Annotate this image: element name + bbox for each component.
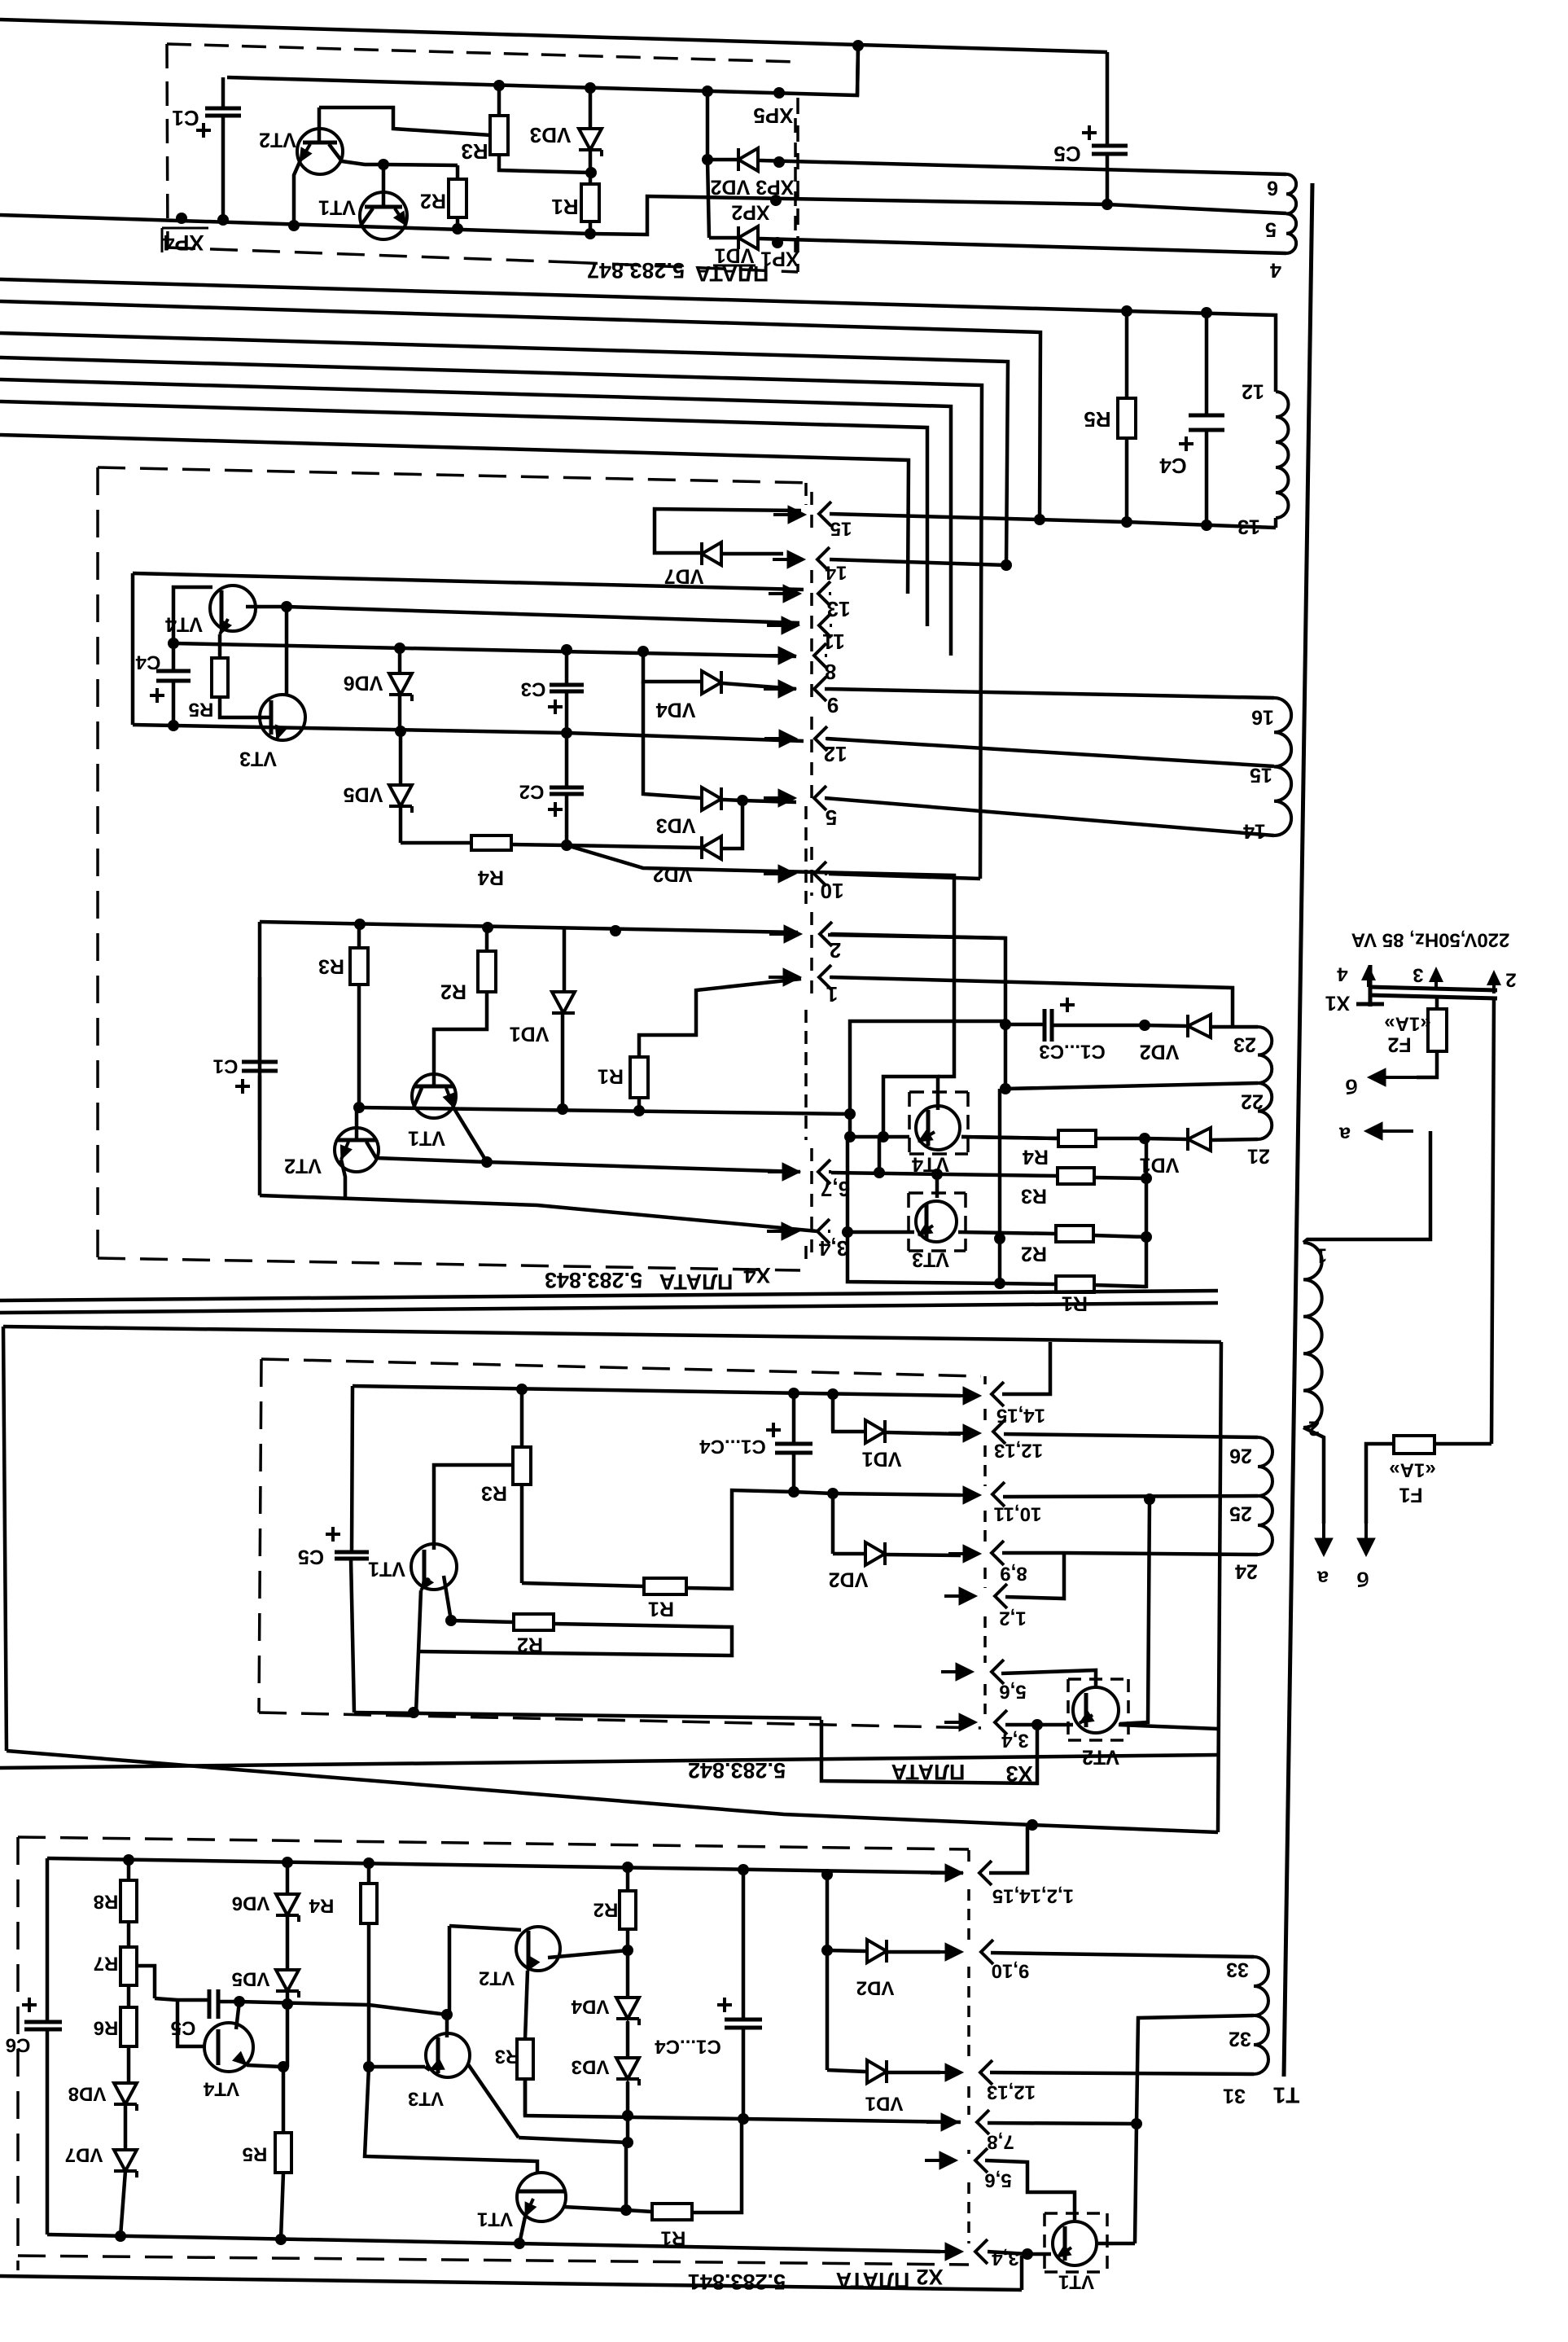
svg-text:VD3: VD3: [656, 814, 696, 836]
winding label 16: [1251, 705, 1274, 728]
board 847 dashed right: [796, 98, 799, 272]
junction dot on net-A: [852, 40, 864, 51]
primary label 2: [1308, 1416, 1320, 1439]
capacitor C1..C4 (841) plus: [717, 1998, 732, 2012]
transistor VT3 (841) base wire: [445, 2015, 449, 2037]
capacitor C1..C4 (842) label: [699, 1436, 766, 1458]
board 841 top rail: [47, 1858, 963, 1873]
board 843 drvbox bottom: [260, 1195, 817, 1231]
wire C5 links: [155, 1998, 239, 2046]
board 841 title: [688, 2265, 944, 2294]
transistor VT2 emitter: [288, 144, 312, 231]
wire pin12-13 to winding 26: [1004, 1434, 1258, 1437]
transistor VT2 (843) label: [284, 1154, 322, 1177]
resistor R3 label: [461, 139, 488, 164]
resistor R3 (843) leads: [357, 922, 361, 1107]
svg-text:X2: X2: [916, 2265, 943, 2289]
svg-text:VD2: VD2: [1140, 1040, 1180, 1063]
wire row 2630: [626, 2116, 630, 2142]
svg-text:б: б: [1345, 1074, 1357, 1097]
transistor VT2 (power842): [1073, 1687, 1119, 1733]
svg-text:4: 4: [1337, 963, 1348, 985]
connector X1 bars: [1369, 987, 1497, 998]
svg-text:32: 32: [1229, 2027, 1251, 2050]
arrow into X3 pin12-13: [948, 1424, 981, 1442]
junction dot C2 bottom: [561, 840, 572, 851]
resistor R2 (power): [1056, 1226, 1093, 1242]
resistor R4 (power) wires: [961, 1137, 1145, 1138]
junction dot R1 left: [994, 1278, 1005, 1289]
resistor R7: [120, 1947, 137, 1985]
diode VD2 (843) label: [653, 862, 693, 885]
wire VD3 node to pin5: [742, 800, 796, 802]
diode VD2 (power): [1188, 1015, 1211, 1037]
wire R5 bottom to VT3 base: [220, 697, 271, 717]
board 847 dashed bottom: [168, 248, 570, 262]
zener VD3 label: [530, 123, 572, 147]
junction dot XP3: [773, 156, 785, 168]
svg-text:R3: R3: [1021, 1184, 1047, 1207]
junction dot R2 bottom: [452, 223, 463, 235]
wire R1 wires: [1000, 1283, 1146, 1287]
transistor VT1 (843) collector: [414, 1088, 422, 1107]
board 843 dashed left: [96, 467, 99, 1258]
wire driver row 1360: [359, 1107, 850, 1114]
svg-text:VD6: VD6: [344, 671, 383, 694]
resistor R1 (842) label: [648, 1597, 674, 1620]
svg-text:5,6: 5,6: [984, 2169, 1011, 2191]
diode VD2 (842) label: [829, 1568, 869, 1590]
resistor R3 (843): [350, 948, 368, 985]
diode VD1 (841) label: [865, 2093, 904, 2115]
resistor R1 (843) label: [598, 1064, 624, 1087]
svg-text:31: 31: [1223, 2084, 1246, 2107]
diode VD2 (power) wires: [1145, 1025, 1258, 1027]
svg-text:9,10: 9,10: [992, 1960, 1030, 1982]
junction dot pin34 row: [842, 1226, 853, 1238]
junction dot C4-843 bottom: [168, 720, 179, 731]
transistor VT2 (power842) row: [1037, 1711, 1094, 1725]
capacitor C2 leads: [565, 733, 569, 845]
capacitor C1..C4 (842): [775, 1444, 812, 1453]
connector X1 pin3 arrow: [1413, 964, 1443, 990]
winding label 31: [1223, 2084, 1246, 2107]
svg-text:26: 26: [1229, 1444, 1252, 1467]
board 847 top rail: [227, 46, 858, 95]
capacitor C6: [24, 2022, 62, 2029]
svg-text:R4: R4: [478, 866, 504, 888]
svg-text:VD5: VD5: [344, 783, 383, 805]
capacitor C1..C4 (841) label: [655, 2036, 721, 2058]
svg-text:R2: R2: [440, 980, 466, 1002]
resistor R3 (841) label: [495, 2046, 520, 2068]
svg-text:R1: R1: [661, 2227, 686, 2249]
connector X3 dashes: [983, 1376, 987, 1714]
junction dot C4 bottom: [1201, 520, 1212, 531]
transformer winding 16-15-14: [1274, 698, 1291, 835]
capacitor C4 (843) leads: [172, 643, 176, 726]
transistor VT1 (843) emitter: [443, 1088, 487, 1162]
capacitor C5 plus: [1082, 125, 1097, 140]
transistor VT4 (843): [210, 585, 256, 631]
wire left loop: [848, 1137, 1000, 1283]
board 847 title: [587, 258, 769, 286]
divider line 1: [0, 1291, 1218, 1300]
svg-text:VT1: VT1: [477, 2208, 513, 2230]
svg-text:VD2: VD2: [653, 862, 693, 885]
wire winding22 tap: [1005, 1083, 1258, 1089]
svg-text:R4: R4: [309, 1895, 334, 1917]
svg-text:14: 14: [825, 562, 847, 584]
diode VD1 (power): [1188, 1128, 1211, 1151]
bus wire L3: [0, 333, 1008, 565]
transistor VT4 (power): [916, 1106, 960, 1150]
zener VD6 leads: [286, 1862, 290, 1970]
connector X4 pin 15: [819, 502, 852, 540]
svg-text:1: 1: [826, 982, 838, 1007]
arrow into X2 pin12-13: [931, 2064, 963, 2081]
winding 13 tail: [1274, 518, 1278, 528]
wire C5 to pin5 row: [1106, 154, 1110, 204]
svg-text:VD4: VD4: [571, 1996, 609, 2018]
svg-text:R1: R1: [648, 1597, 674, 1620]
resistor R1 (power): [1056, 1276, 1094, 1292]
transistor VT1 (power841): [1053, 2221, 1097, 2265]
capacitor C4 (T1 area) leads: [1205, 313, 1209, 525]
zener VD5 (841): [276, 1970, 299, 1998]
capacitor C3 plus: [548, 700, 563, 714]
svg-text:C2: C2: [519, 781, 545, 803]
primary label 1: [1316, 1243, 1327, 1266]
diode VD2 (843): [702, 836, 721, 859]
wire VT2C row: [383, 164, 458, 165]
svg-text:R5: R5: [189, 699, 214, 721]
winding label 12: [1242, 379, 1264, 402]
diode VD1 (842) label: [862, 1447, 902, 1470]
transistor VT2 (847): [297, 129, 343, 174]
resistor R4 (843) label: [478, 866, 504, 888]
winding label 22: [1241, 1090, 1264, 1112]
diode VD1 (841): [867, 2060, 887, 2083]
board 843 title: [545, 1263, 771, 1294]
board 847 bottom rail: [0, 196, 1286, 235]
diode VD1 (power) wires: [1145, 1138, 1258, 1140]
wire R4row riser: [567, 845, 954, 1077]
connector X2 pin 5-6: [925, 2148, 1012, 2191]
junction dot C2 top: [561, 727, 572, 739]
transistor VT3 (841) label: [408, 2088, 444, 2110]
resistor R1 (847) leads: [589, 173, 593, 234]
junction dot 1016 mid: [821, 1945, 833, 1956]
transistor VT4 (841) emitter: [233, 2052, 282, 2068]
svg-text:3: 3: [1413, 964, 1423, 986]
resistor R2 (843) label: [440, 980, 466, 1002]
transistor VT1 (power841) row: [1027, 2245, 1071, 2257]
svg-text:R3: R3: [495, 2046, 520, 2068]
capacitor C1 leads: [221, 77, 226, 220]
zener VD3 (847): [579, 129, 602, 156]
resistor R8 leads: [127, 1860, 131, 1947]
winding label 25: [1229, 1502, 1252, 1524]
bottom outer line: [0, 2256, 1022, 2290]
svg-text:1: 1: [1316, 1243, 1327, 1266]
diode VD1 (847): [738, 226, 758, 249]
winding label 13: [1237, 515, 1260, 537]
diode VD1 (power) label: [1140, 1153, 1180, 1176]
primary top lead: [1303, 1131, 1430, 1243]
diode VD1 (843) leads: [563, 928, 564, 1109]
svg-text:R2: R2: [517, 1633, 543, 1656]
wire X2 pin1 jog: [989, 1827, 1027, 1873]
wire pin10-11 to winding 25 tap: [1003, 1496, 1258, 1497]
svg-text:15: 15: [1250, 763, 1272, 786]
arrow into pin14: [773, 550, 805, 568]
board 847 dashes at pins: [794, 118, 797, 252]
svg-text:F2: F2: [1387, 1033, 1411, 1055]
winding label 32: [1229, 2027, 1251, 2050]
resistor R3 (841) leads: [523, 2039, 528, 2116]
svg-text:12: 12: [824, 742, 848, 766]
fuse F2: [1428, 998, 1447, 1051]
board 842 outer top: [3, 1327, 1221, 1342]
svg-text:24: 24: [1235, 1559, 1258, 1582]
transistor VT1 collector: [361, 208, 373, 226]
transformer winding 33-32-31: [1254, 1957, 1268, 2074]
svg-text:F1: F1: [1399, 1483, 1422, 1506]
transistor VT4 (841) label: [203, 2078, 239, 2100]
junction dot 7-8 right: [1131, 2118, 1142, 2129]
svg-text:13: 13: [1237, 515, 1260, 537]
junction dot VD1 bottom: [557, 1103, 568, 1115]
capacitor C3 leads: [565, 647, 569, 733]
connector X4 pin 1: [769, 965, 838, 1007]
svg-text:VD6: VD6: [232, 1892, 270, 1914]
junction dot tap22: [1000, 1083, 1011, 1094]
wire pin12 row to winding tap 15: [826, 739, 1274, 766]
transistor VT2 (841) collector: [548, 1950, 628, 1958]
resistor R5 (841) leads: [281, 2067, 283, 2239]
capacitor C5 lead: [1106, 52, 1110, 146]
resistor R4 (843) row: [401, 843, 567, 845]
svg-text:R8: R8: [94, 1891, 119, 1913]
transistor VT1 (842): [411, 1544, 457, 1590]
wire pin3-4 drop: [821, 1720, 1037, 1783]
resistor R6: [120, 2007, 137, 2046]
zener VD7 label: [65, 2144, 103, 2166]
board 847 dashed top: [167, 44, 798, 62]
transistor VT4 emitter: [220, 619, 231, 658]
winding label 5: [1265, 217, 1277, 240]
junction dots drv rail: [354, 919, 621, 936]
svg-text:X4: X4: [743, 1263, 770, 1287]
zener VD5 (841) label: [232, 1968, 270, 1990]
junction dot VT2 base node: [441, 2009, 453, 2020]
svg-text:VD2: VD2: [829, 1568, 869, 1590]
junction dot VT4 base loop: [878, 1131, 889, 1142]
board 843 drvbox left: [258, 922, 262, 1195]
board 847 dashed left: [167, 44, 168, 248]
resistor R1 (841): [652, 2204, 692, 2220]
fuse F2 rating: [1384, 1013, 1430, 1035]
wire pin3-4 row: [1005, 1723, 1037, 1727]
junction dot X2 pin34: [1022, 2248, 1033, 2260]
resistor R8: [120, 1880, 137, 1922]
diode VD1 (843) label: [510, 1022, 550, 1045]
svg-text:VT2: VT2: [259, 128, 296, 151]
board 843 subbox bottom to pin12: [133, 725, 804, 741]
connector X2 pin 7-8: [926, 2110, 1014, 2153]
zener VD6 label: [344, 671, 383, 694]
wire X2 pin7-8 right: [988, 2123, 1137, 2124]
junction dot R2 left: [445, 1615, 457, 1626]
transistor VT1 (843) label: [408, 1126, 445, 1149]
junction dots 841 top rail: [123, 1854, 749, 1875]
arrow into X2 pin3-4: [931, 2243, 963, 2261]
wire drv rail to pin2 riser: [828, 935, 1005, 1089]
resistor R4 (843): [471, 835, 511, 850]
connector X3 pin 10-11: [992, 1482, 1041, 1525]
transistor VT2 (power842) dashed box: [1068, 1679, 1128, 1740]
board 843 dashed bottom: [98, 1258, 800, 1270]
arrow into X2 pin9-10: [931, 1943, 963, 1961]
svg-text:5,6: 5,6: [999, 1681, 1026, 1703]
transistor VT3 (841) emitter: [425, 2059, 445, 2070]
junction dot XP4: [176, 213, 187, 224]
connector XP4 label: [162, 228, 208, 255]
resistor R5 (841) label: [243, 2143, 268, 2165]
resistor R2 (842): [514, 1614, 554, 1630]
label a (X1 side): [1338, 1122, 1351, 1145]
svg-text:VT2: VT2: [284, 1154, 322, 1177]
wire jog pin2-rail: [850, 1021, 1005, 1137]
capacitor C1..C4 (842) plus: [766, 1423, 781, 1437]
resistor R5 (841): [275, 2133, 291, 2173]
capacitor C1..C4 (841): [725, 2020, 762, 2028]
resistor R2 (power) label: [1021, 1242, 1047, 1265]
svg-text:а: а: [1316, 1566, 1329, 1589]
capacitor C4 (843) plus: [150, 688, 164, 703]
svg-text:VT4: VT4: [203, 2078, 239, 2100]
board 843 dashed right: [804, 483, 808, 1267]
svg-text:VD3: VD3: [530, 123, 572, 147]
diode VD4 wire: [643, 649, 796, 689]
transistor VT3 (843): [260, 695, 305, 740]
board 842 top rail: [353, 1386, 961, 1396]
capacitor C6 label: [6, 2034, 31, 2056]
capacitor C1 plus: [196, 123, 211, 138]
wire X1 pin2 drop: [1491, 998, 1494, 1444]
svg-text:R2: R2: [1021, 1242, 1047, 1265]
transformer winding 26-25-24: [1258, 1437, 1272, 1555]
wire net-A top rail: [0, 20, 1107, 52]
svg-text:C5: C5: [298, 1545, 324, 1568]
svg-text:13: 13: [827, 597, 851, 621]
transistor VT4 (power) row: [850, 1129, 1058, 1142]
capacitor C5 (841): [209, 1989, 218, 2019]
resistor R1 (847): [581, 184, 599, 221]
wire pin15 row to winding 13: [830, 514, 1276, 528]
transistor VT2 base step: [319, 107, 491, 143]
junction dot VT1-842 emitter: [408, 1707, 419, 1718]
wire VT1.C to R1: [563, 2207, 626, 2210]
svg-text:12,13: 12,13: [987, 2081, 1036, 2103]
svg-text:15: 15: [830, 518, 852, 540]
svg-text:C1: C1: [213, 1055, 239, 1077]
zener VD5 leads: [399, 731, 403, 843]
svg-text:9: 9: [827, 693, 839, 717]
transistor VT2 (841) emitter: [525, 1956, 540, 2039]
zener VD7 leads: [120, 2105, 125, 2236]
junction dots 842 rail: [516, 1384, 839, 1400]
resistor R5 (843): [212, 658, 228, 697]
junction dots 841 bottom rail: [115, 2230, 525, 2249]
connector X4 pin 13: [769, 581, 850, 621]
svg-text:R1: R1: [598, 1064, 624, 1087]
resistor R3 (847) leads: [499, 86, 591, 173]
board 843 drvbox top rail: [260, 922, 798, 932]
vertical 1016 (841): [826, 1875, 830, 2070]
board 841 bottom rail: [47, 2235, 940, 2252]
board 842 dashed bottom: [259, 1713, 981, 1728]
capacitor C5 (842) lead2: [351, 1559, 354, 1713]
bus wire L1 to R5: [0, 279, 1127, 311]
wire VT4/VT3 collector rail to pin11: [287, 607, 799, 623]
capacitor C4 plus: [1179, 436, 1194, 451]
svg-text:VD5: VD5: [232, 1968, 270, 1990]
junction dot R1 left: [620, 2204, 632, 2216]
junction dot C1C4 bottom: [738, 2113, 749, 2125]
resistor R2 (847) leads: [456, 165, 460, 229]
transistor VT1 (841) label: [477, 2208, 513, 2230]
capacitor C4 (T1 area): [1189, 415, 1224, 430]
capacitor C1 (843): [242, 1062, 278, 1071]
wire R1 riser: [624, 2142, 629, 2210]
svg-text:33: 33: [1226, 1958, 1249, 1980]
transistor VT2 (power842) label: [1082, 1745, 1119, 1768]
junction dot VD3-pin5: [737, 795, 748, 806]
transformer T1 label: [1273, 2083, 1300, 2108]
diode VD1 (842) leads: [831, 1394, 961, 1434]
svg-text:5: 5: [1265, 217, 1277, 240]
wire VT3 base riser: [935, 1174, 939, 1198]
resistor R3 (power) label: [1021, 1184, 1047, 1207]
capacitor C1..C3 plus: [1060, 998, 1075, 1012]
svg-text:XP2: XP2: [731, 200, 769, 223]
junction dots pin8 row: [394, 643, 649, 657]
resistor R2 (843): [478, 951, 496, 992]
board 842 bottom rail: [354, 1713, 821, 1718]
svg-text:10: 10: [821, 879, 844, 903]
connector X2 dashes: [967, 1850, 970, 2243]
board 847 dashed bottom2: [570, 262, 798, 272]
zener VD7: [114, 2150, 137, 2178]
resistor R1 (841) wires: [626, 2119, 742, 2213]
bus wire L5: [0, 379, 951, 656]
transistor VT2 (841) base wire: [449, 1926, 521, 2015]
mains rating text: [1351, 929, 1510, 951]
connector X2 pin 12-13: [980, 2060, 1036, 2103]
diode VD2 (842) leads: [833, 1493, 961, 1555]
transistor VT4 (841): [204, 2023, 253, 2072]
wire pin2 to rail: [831, 934, 1005, 938]
svg-text:«1А»: «1А»: [1389, 1459, 1435, 1481]
svg-text:R2: R2: [593, 1899, 619, 1921]
wire X2 pin9-10 to winding 33: [991, 1953, 1254, 1957]
transistor VT3 (841): [426, 2033, 470, 2077]
fuse F1: [1394, 1436, 1434, 1454]
junction dot XP2 pin: [770, 195, 782, 206]
junction dot VD2 row: [702, 154, 713, 165]
